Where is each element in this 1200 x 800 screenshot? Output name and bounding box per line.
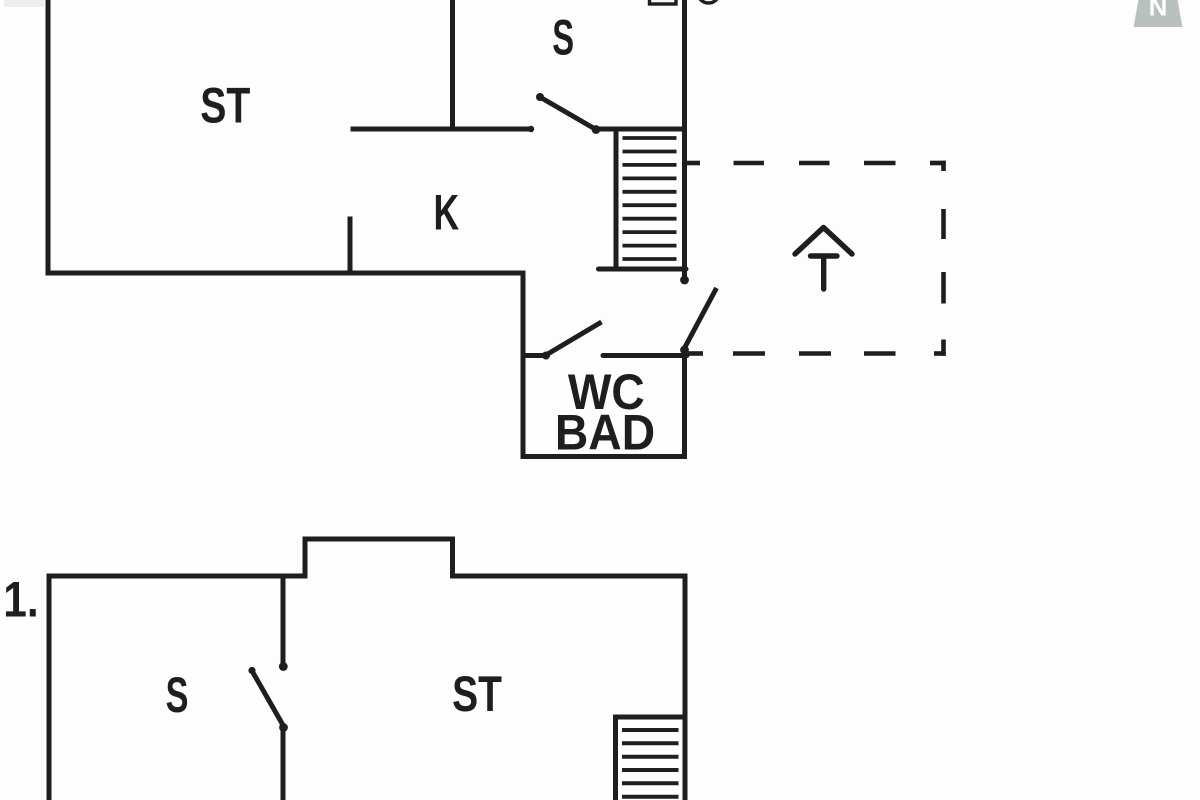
svg-text:ST: ST <box>200 77 250 134</box>
svg-text:ST: ST <box>452 665 502 722</box>
wall WC left vertical <box>521 271 526 460</box>
symbol square top <box>650 0 677 4</box>
wall lower divider lower part <box>281 728 286 800</box>
stairs upper top line <box>594 127 686 132</box>
svg-text:S: S <box>552 10 574 66</box>
wall upper bottom horizontal <box>46 271 526 276</box>
door leaf terrace <box>685 288 717 348</box>
door hinge dot stairs top <box>592 125 601 134</box>
bump left vertical <box>303 537 308 579</box>
terrace top dashes <box>685 161 701 166</box>
stairs lower left wall <box>613 715 618 800</box>
symbol circle top <box>698 0 720 3</box>
lower floor walls <box>47 537 688 800</box>
svg-text:K: K <box>433 186 459 241</box>
door leaf lower top dot <box>248 667 255 674</box>
wall lower top-left horizontal <box>47 574 308 579</box>
door leaf S room <box>539 97 596 130</box>
terrace dashed outline <box>685 161 946 356</box>
wall upper-right vertical <box>682 0 687 277</box>
terrace right dashes <box>941 161 946 171</box>
wall WC jamb left <box>521 353 546 358</box>
wall lower-left vertical <box>47 574 52 800</box>
wall WC right vertical <box>682 353 687 459</box>
svg-text:N: N <box>1149 0 1168 22</box>
wall S/ST divider horizontal <box>351 127 532 132</box>
door leaf WC <box>546 322 602 355</box>
door jamb dot divider right end <box>528 126 534 132</box>
svg-text:BAD: BAD <box>555 405 655 461</box>
terrace bottom dashes <box>934 351 946 356</box>
wall lower-right vertical <box>683 574 688 800</box>
smudge top-left <box>4 0 44 7</box>
door leaf S dot top <box>536 93 544 101</box>
door leaf lower <box>252 670 284 726</box>
wall WC bottom horizontal <box>521 454 688 459</box>
svg-text:1.: 1. <box>3 571 38 627</box>
svg-text:S: S <box>166 668 189 724</box>
stairs lower top line <box>613 715 687 720</box>
wall lower top-right horizontal <box>450 574 687 579</box>
stairs upper rungs <box>623 138 677 259</box>
terrace T stem <box>821 256 826 289</box>
wall end dot below stairs <box>680 276 689 285</box>
door hinge dot WC <box>542 352 550 360</box>
terrace entry arrow chevron <box>795 228 852 290</box>
door hinge dot terrace <box>680 346 689 355</box>
wall S room vertical <box>450 0 455 132</box>
stairs upper bottom line <box>599 267 687 272</box>
wall WC top segment <box>603 353 687 358</box>
wall lower divider upper part <box>281 574 286 664</box>
bump top horizontal <box>303 537 456 542</box>
stairs lower rungs <box>622 730 679 797</box>
wall stub kitchen <box>348 217 353 276</box>
terrace T bar <box>811 253 838 258</box>
compass N arrow <box>1134 0 1183 27</box>
door hinge dot lower <box>279 723 288 732</box>
wall end dot divider <box>279 662 288 671</box>
stairs upper left wall <box>614 127 619 270</box>
wall upper-left vertical <box>46 0 51 276</box>
bump right vertical <box>450 537 455 579</box>
